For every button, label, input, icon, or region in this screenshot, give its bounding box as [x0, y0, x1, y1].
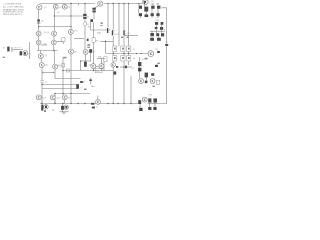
wire tail bottom [41, 67, 43, 80]
wire top right corner [158, 8, 167, 104]
transistor inner mark [37, 96, 39, 98]
transistor Q19 driver [111, 63, 116, 68]
output device bank blob g [155, 22, 158, 25]
psu blob c [153, 98, 157, 102]
transistor Q22 [62, 95, 67, 100]
junction dot [80, 60, 81, 61]
resistor R7 [92, 38, 95, 42]
speck above RE2 [121, 37, 123, 38]
resistor RE5 [121, 55, 125, 61]
wire x101.5 below [101, 69, 103, 71]
resistor RE3 [127, 46, 131, 52]
capacitor C8 [61, 106, 64, 110]
wire x85 top [84, 4, 86, 14]
transistor inner mark [69, 31, 71, 33]
dash right of driver [116, 66, 118, 68]
svg-text:Q12: Q12 [126, 33, 130, 35]
wire x105.5 drop [105, 42, 107, 54]
vas bar [107, 28, 108, 33]
wire x85 low [85, 54, 87, 61]
wire mirror bus y50.5 [37, 50, 58, 52]
transistor inner mark [54, 65, 56, 67]
svg-text:C5: C5 [45, 81, 47, 83]
wire x108 long [107, 4, 109, 28]
inductor scribble [97, 100, 100, 103]
wire y35.5 stub [124, 35, 138, 37]
driver q12 diagonal b [125, 33, 127, 35]
wire T4 leads [94, 6, 99, 8]
junction dot [91, 103, 92, 104]
speck under psu2 [152, 86, 155, 87]
wire bank col h [151, 31, 153, 33]
resistor RE4 value [114, 57, 116, 59]
transistor Q9 mirror left [36, 40, 41, 45]
transistor Q6 input [23, 51, 28, 56]
wire x85 under diodes [84, 19, 86, 22]
junction dot [144, 3, 145, 4]
diode D6 on x85 [84, 22, 87, 25]
transistor Q20 [36, 95, 41, 100]
speaker LS1 [148, 51, 154, 57]
junction dot [107, 3, 108, 4]
transistor inner mark [65, 106, 67, 108]
wire tail top [40, 51, 42, 54]
wire vas top y58.5 [97, 58, 105, 60]
speck right of Q16 b [87, 47, 90, 48]
wire input q drop [29, 42, 31, 59]
resistor R12 [89, 49, 92, 53]
wire x63 comp stub [62, 42, 64, 45]
connector CN2 pin [65, 106, 67, 108]
ground symbol [61, 111, 67, 113]
output device bank blob n [150, 38, 154, 41]
wire x113 long [112, 67, 114, 104]
psu blob d [139, 108, 142, 111]
junction dot [123, 66, 124, 67]
wire bank lead b [151, 16, 153, 18]
output device bank blob d [139, 13, 142, 16]
wire y84.5 [42, 84, 77, 86]
transistor Q13 [53, 64, 58, 69]
wire x42 to bottom bank [41, 89, 43, 104]
svg-text:Q11: Q11 [116, 34, 119, 36]
output device bank blob a [139, 6, 142, 9]
wire x63 under rail [62, 104, 64, 106]
junction dot [70, 103, 71, 104]
svg-text:VR2: VR2 [96, 71, 99, 73]
speck above R5 [63, 57, 66, 59]
emitter arrow Q7 [37, 35, 39, 36]
resistor tick b [53, 72, 55, 74]
wire x124 mid [123, 61, 125, 67]
psu blob a [138, 100, 141, 104]
transistor inner mark [37, 32, 39, 34]
capacitor C1 plates input [11, 47, 13, 51]
svg-text:BIAS: BIAS [97, 32, 102, 35]
transistor inner mark [112, 64, 114, 66]
wire x113 mid [112, 36, 114, 46]
transistor Q4 [98, 1, 103, 6]
wire x146.3 psu [145, 78, 147, 81]
resistor R16 dash [89, 79, 91, 81]
transistor inner mark [84, 51, 86, 53]
output device bank blob i [155, 27, 158, 29]
wire y70.5 [63, 70, 113, 72]
junction dot [140, 53, 141, 54]
junction dot [123, 103, 124, 104]
capacitor C2 [84, 62, 87, 67]
transistor inner mark [69, 50, 71, 52]
wire V+ top rail [40, 3, 96, 5]
wire x55 y93-103 [54, 94, 56, 104]
wire x139.5 zobel top [139, 57, 141, 62]
transistor Q10 mirror right [51, 40, 56, 45]
wire x93.5 mid [93, 22, 95, 37]
svg-text:D5: D5 [132, 68, 134, 70]
driver diagonal b [113, 33, 115, 35]
capacitor C4 blob [37, 19, 40, 21]
wire bank col b [157, 9, 159, 13]
output device bank blob c [157, 6, 160, 9]
mark under CN1 [44, 111, 46, 112]
junction dot [54, 93, 55, 94]
inductor L1 output [96, 100, 101, 105]
svg-text:.33: .33 [133, 58, 136, 60]
RL dash b [92, 107, 95, 109]
diode D1 [83, 14, 86, 16]
wire bank col a [151, 9, 153, 13]
wire x124 top [123, 4, 125, 47]
dash lower right [151, 73, 154, 76]
connector input jack [7, 47, 9, 52]
wire tail mid [40, 58, 42, 62]
transistor Q12 [39, 63, 44, 68]
wire x90.5 drop [90, 22, 92, 30]
wire bank lead a [139, 16, 141, 18]
transistor inner mark [63, 6, 65, 8]
svg-text:Q1: Q1 [29, 54, 32, 56]
wire input top L [41, 44, 47, 46]
capacitor C3 [76, 84, 79, 89]
wire x93.5 lower [93, 42, 95, 63]
wire x80.5 drop [80, 61, 82, 71]
wire x139.5 zobel low [139, 71, 141, 78]
psu center dot [145, 81, 148, 84]
wire right bank bus y31 [150, 30, 165, 32]
dash mid right [155, 65, 158, 67]
wire diff base L [38, 27, 40, 32]
wire T13 down [54, 69, 56, 79]
junction dot [54, 15, 55, 16]
diode D4 [92, 10, 95, 12]
junction dot [93, 70, 94, 71]
junction dot [128, 53, 129, 54]
blob under diodes [90, 19, 93, 22]
svg-text:Q15: Q15 [68, 97, 72, 99]
svg-text:R2: R2 [116, 67, 118, 69]
terminal bar 1 [41, 105, 43, 111]
speck under speaker [145, 58, 148, 60]
wire bank col g [161, 30, 163, 33]
junction dot [130, 103, 131, 104]
wire feedback y61 [81, 60, 92, 62]
wire y88.5 [42, 88, 78, 90]
svg-text:R8: R8 [88, 27, 90, 29]
dark center input q [24, 52, 26, 54]
wire x71 lower [70, 71, 72, 104]
wire x94 diode drop [93, 13, 95, 20]
transistor Q18 [99, 64, 104, 69]
wire diff emitters L [38, 36, 40, 40]
fuse F2 [138, 68, 141, 72]
svg-text:Q6: Q6 [45, 65, 48, 67]
junction dot [123, 3, 124, 4]
resistor RE2 [121, 46, 125, 52]
wire bus tick x78.5 [78, 4, 80, 6]
transistor inner mark [144, 1, 146, 3]
resistor RE1 value [114, 48, 116, 50]
junction dot [77, 103, 78, 104]
junction dot [62, 70, 63, 71]
junction dot [113, 53, 114, 54]
junction dot [117, 103, 118, 104]
speck mid col b [101, 25, 103, 26]
speck near C3 [84, 89, 87, 90]
wire T21 to rail [54, 100, 56, 104]
wire bus y26.5 [39, 26, 70, 28]
bank top mark a [152, 3, 155, 4]
wire y93.5 [55, 93, 90, 95]
svg-text:10u: 10u [41, 21, 44, 23]
transistor inner mark [44, 106, 46, 108]
transistor inner mark [38, 6, 40, 8]
junction dot [123, 53, 124, 54]
junction dot [41, 103, 42, 104]
wire x131 low [130, 76, 132, 104]
driver bar [112, 30, 113, 35]
speck right of Q16 a [87, 44, 90, 46]
wire mirror R down [53, 45, 55, 51]
driver diagonal a [113, 30, 115, 32]
transistor inner mark [37, 41, 39, 43]
wire bank col f [156, 30, 158, 33]
transistor inner mark [52, 32, 54, 34]
output device bank blob h [161, 22, 164, 25]
wire x124 long [123, 67, 125, 104]
wire x90.8 nfb drop [90, 78, 92, 85]
resistor RE5 value [122, 57, 124, 59]
psu circle mark a [140, 80, 142, 82]
wire bottom rail right [148, 103, 159, 105]
label box on y70.5 [95, 68, 102, 73]
wire V+ top rail right part [104, 3, 147, 5]
transistor Q2 [53, 4, 58, 9]
wire bias link y67 [120, 66, 132, 68]
output device bank blob f [156, 13, 159, 16]
transistor inner mark [54, 6, 56, 8]
wire x71 low [70, 54, 72, 71]
diode D3 [92, 8, 95, 10]
wire psu bottom c [139, 104, 141, 108]
svg-text:Q14: Q14 [56, 97, 60, 99]
junction dot [107, 103, 108, 104]
connector CN1 [44, 105, 48, 109]
capacitor C6 [145, 14, 149, 17]
transistor inner mark [151, 80, 153, 82]
psu blob b [148, 98, 151, 102]
wire V- bottom rail [40, 103, 138, 105]
wire x144.5 inter [145, 12, 147, 15]
junction dot [113, 103, 114, 104]
svg-text:R9: R9 [83, 82, 85, 84]
transistor inner mark [139, 80, 141, 82]
speaker inner mark [150, 52, 153, 54]
transistor inner mark [39, 55, 41, 57]
wire bank col e [161, 25, 163, 27]
svg-text:1k: 1k [65, 108, 67, 110]
resistor RE1 [113, 46, 117, 52]
svg-text:Q3 Q4: Q3 Q4 [44, 32, 50, 34]
output device bank blob k [150, 33, 154, 36]
svg-text:ALL Q DEV. MATCHED: ALL Q DEV. MATCHED [3, 6, 24, 9]
wire x101.5 vas [101, 59, 103, 64]
wire x90.5 blob drop [90, 53, 92, 61]
svg-text:L1: L1 [96, 107, 98, 109]
junction dot [53, 50, 54, 51]
transistor inner mark [51, 96, 53, 98]
diode on bias link [125, 66, 127, 69]
svg-text:F1: F1 [142, 59, 144, 61]
svg-text:~ AC: ~ AC [51, 109, 56, 112]
wire x139 stub [138, 4, 140, 8]
junction dot [105, 41, 106, 42]
transistor Q17 vbe multiplier [91, 64, 96, 69]
capacitor C5 [144, 7, 148, 12]
wire ground segment [60, 111, 69, 113]
wire x128.5 link [128, 52, 130, 56]
junction dot [85, 60, 86, 61]
junction dot [84, 103, 85, 104]
transistor Q8 diff pair right [52, 31, 57, 36]
svg-text:R15: R15 [96, 40, 99, 42]
connector CN1 pin [45, 106, 47, 108]
resistor R8 [104, 57, 107, 62]
transistor Q16 current source [83, 49, 88, 54]
dashed input ground line [15, 47, 22, 49]
svg-text:R5: R5 [59, 66, 61, 68]
wire mirror L down [38, 45, 40, 51]
output device bank blob b [151, 6, 154, 9]
svg-text:Q2: Q2 [59, 7, 62, 9]
wire bias mid y30 [91, 29, 110, 31]
wire psu bottom a [149, 103, 151, 107]
transistor Q1 [37, 5, 42, 10]
svg-text:C 300W AMPLIFIER: C 300W AMPLIFIER [3, 3, 22, 6]
wire y78.5 [55, 78, 81, 80]
wire resistor row y72.5 [42, 72, 55, 74]
wire x63 low [62, 71, 64, 96]
wire x119 long [118, 4, 120, 47]
wire x144.6 stub [144, 5, 146, 7]
wire x63 bottom [64, 100, 66, 104]
transistor Q5 scribble [144, 1, 146, 3]
resistor RE6 value [128, 57, 130, 59]
wire L1 top stub [97, 96, 99, 100]
transistor inner mark [96, 101, 98, 103]
blob right of y70.5 [114, 71, 117, 74]
wire Q1 emitter drop [38, 10, 40, 27]
svg-text:REV B 2004 SHT 1/1: REV B 2004 SHT 1/1 [3, 14, 23, 16]
junction dot [84, 3, 85, 4]
wire output rail y53.5 [106, 53, 148, 55]
resistor tick a [42, 72, 44, 74]
transistor inner mark [63, 96, 65, 98]
svg-text:Q5: Q5 [44, 55, 47, 57]
junction dot [138, 3, 139, 4]
wire x71 mid [70, 34, 72, 49]
resistor RL near speaker [157, 51, 160, 53]
svg-text:Q3: Q3 [67, 7, 70, 9]
wire x104 vas drop [103, 62, 105, 71]
wire x85 mid [84, 26, 86, 49]
wire input line [14, 49, 23, 51]
wire bank col c [138, 9, 140, 13]
wire x71 top [70, 4, 72, 30]
wire x54.5 to T13 [54, 51, 56, 65]
wire x113 link [112, 52, 114, 56]
psu circle mark c [144, 98, 146, 100]
wire mirror link y38.5 [74, 38, 84, 40]
wire x128.5 top [128, 4, 130, 47]
wire VAS link y41.5 [100, 41, 113, 43]
svg-text:Q9: Q9 [88, 64, 91, 66]
capacitor C4 plates [37, 21, 40, 23]
connector PSU plug 1 [139, 79, 144, 84]
speck above RE3 [127, 37, 129, 38]
capacitor C7 [145, 73, 148, 78]
RL dash a [91, 103, 94, 105]
transistor inner mark [52, 41, 54, 43]
wire vbe link [96, 65, 99, 67]
svg-text:Q16: Q16 [43, 43, 47, 45]
wire bank col d [156, 25, 158, 27]
wire x139.5 zobel mid [139, 66, 141, 67]
resistor RE3 value [128, 48, 130, 50]
wire x113 top [112, 4, 114, 30]
junction dot [38, 26, 39, 27]
svg-text:D1: D1 [87, 16, 89, 18]
junction dot [62, 93, 63, 94]
transistor inner mark [40, 64, 42, 66]
vas arrow [108, 29, 110, 31]
wire y41.5 left stub [57, 41, 64, 43]
wire bank lead c [157, 16, 159, 18]
output device bank blob m [161, 33, 164, 36]
junction dot [136, 53, 137, 54]
wire diff emitters R [53, 36, 55, 40]
driver bar Q12 [123, 30, 124, 35]
wire bank col j [158, 36, 160, 37]
svg-text:PSU: PSU [148, 94, 153, 96]
svg-text:.33: .33 [133, 49, 136, 51]
transistor Q21 [50, 95, 55, 100]
output device bank blob j [160, 27, 163, 30]
wire bank col i [151, 36, 153, 37]
speck right of x85 [87, 39, 89, 41]
transistor inner mark [92, 65, 94, 67]
output device bank blob o [157, 38, 161, 41]
junction dot [70, 93, 71, 94]
